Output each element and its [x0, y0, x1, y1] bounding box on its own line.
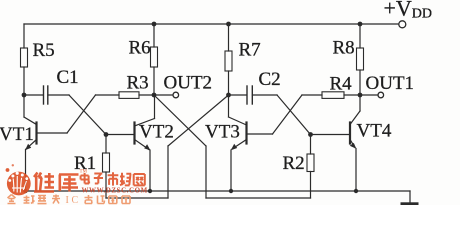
- wire R6 top lead: [153, 24, 155, 47]
- svg-text:R2: R2: [283, 153, 305, 174]
- resistor R5: [21, 48, 28, 67]
- wire VT2 collector vertical: [154, 95, 156, 119]
- wire ground drop: [409, 191, 411, 203]
- svg-text:I: I: [66, 195, 69, 205]
- wire top supply rail: [24, 23, 398, 25]
- svg-text:+VDD: +VDD: [384, 0, 433, 22]
- watermark slogan row: [8, 195, 61, 204]
- svg-text:VT3: VT3: [205, 122, 240, 143]
- resistor R3: [119, 92, 139, 99]
- transistor VT1: [24, 117, 37, 150]
- node VT4 collector dot: [358, 93, 363, 98]
- wire C2 to VT4 base diagonal: [277, 95, 311, 135]
- svg-text:TM: TM: [80, 170, 88, 175]
- wire C1 right lead: [48, 94, 69, 96]
- node junction dot R8 top: [358, 22, 363, 27]
- wire OUT1 lead: [360, 94, 378, 96]
- transistor VT3: [229, 117, 247, 150]
- resistor R1: [103, 153, 110, 172]
- wire VT1 collector vertical: [23, 95, 25, 117]
- wire R5 top lead: [23, 24, 25, 48]
- node VT3 collector dot: [226, 93, 231, 98]
- svg-text:OUT2: OUT2: [164, 73, 213, 94]
- node VT2 collector dot: [152, 93, 157, 98]
- node VT2 base dot: [104, 132, 109, 137]
- wire C1 to VT2 base diagonal: [69, 95, 106, 135]
- wire lower-left rail R1 to cross line: [106, 197, 168, 199]
- wire R2 bottom lead: [310, 172, 312, 199]
- wire OUT2 lead: [154, 94, 173, 96]
- wire VT3 collector vertical: [228, 95, 230, 117]
- watermark: [6, 164, 148, 206]
- wire emitter ground rail: [26, 190, 411, 192]
- wire R8 top lead: [359, 24, 361, 48]
- ground symbol: [401, 202, 419, 205]
- resistor R6: [151, 47, 158, 67]
- resistor R2: [307, 154, 314, 172]
- svg-text:R6: R6: [129, 38, 151, 59]
- svg-text:R4: R4: [330, 74, 353, 95]
- node VT3 emitter dot: [229, 189, 233, 193]
- wire cross line vertical left: [167, 146, 169, 198]
- svg-text:C: C: [72, 195, 79, 205]
- wire R6 bottom lead: [153, 67, 155, 95]
- node VT1 emitter dot: [23, 189, 27, 193]
- wire R3 to VT1 base diagonal: [67, 95, 96, 133]
- svg-text:WWW.DZSC.COM: WWW.DZSC.COM: [82, 187, 148, 195]
- wire VT4 emitter vertical: [355, 149, 357, 192]
- wire VT4 collector vertical: [359, 95, 361, 111]
- svg-text:OUT1: OUT1: [366, 73, 415, 94]
- wire VT3 base to R4 diagonal: [273, 95, 303, 134]
- svg-text:C2: C2: [259, 69, 281, 90]
- wire C2 left lead: [229, 94, 247, 96]
- node VT4 base dot: [308, 132, 313, 137]
- wire R1 top lead: [105, 135, 107, 154]
- wire VT1 base lead: [37, 132, 67, 134]
- terminal OUT1 open circle: [378, 92, 384, 98]
- svg-text:R7: R7: [239, 40, 261, 61]
- wire R2 top lead: [310, 135, 312, 155]
- transistor VT2: [135, 119, 155, 151]
- capacitor C1: [44, 86, 48, 104]
- node junction dot R7 top: [226, 22, 231, 27]
- watermark logo disc: [6, 164, 31, 195]
- watermark char wei: [34, 173, 54, 192]
- svg-text:R5: R5: [33, 40, 55, 61]
- wire cross line vertical right: [205, 146, 207, 198]
- wire R8 bottom lead: [359, 70, 361, 95]
- watermark char ku: [59, 175, 79, 192]
- wire VT4 base lead: [311, 134, 350, 136]
- wire VT2 emitter vertical: [149, 150, 151, 191]
- transistor VT4: [350, 111, 360, 149]
- wire R3 right lead: [139, 94, 154, 96]
- wire C1 left lead: [24, 94, 43, 96]
- node VT4 emitter dot: [354, 189, 358, 193]
- resistor R4: [322, 92, 344, 99]
- watermark chars dian zi shi chang wang: [81, 172, 145, 185]
- svg-text:VT2: VT2: [139, 122, 174, 143]
- wire R4 left lead: [302, 94, 322, 96]
- wire lower-right rail to R2: [206, 197, 311, 199]
- node junction dot R6 top: [152, 22, 157, 27]
- svg-text:C1: C1: [57, 67, 79, 88]
- svg-text:R8: R8: [333, 38, 355, 59]
- wire VT1 emitter vertical: [25, 150, 27, 192]
- terminal +VDD open circle: [399, 21, 406, 28]
- wire C2 right lead: [253, 94, 278, 96]
- wire cross line VT2 collector to R2 diagonal: [154, 95, 206, 146]
- wire VT3 base lead: [247, 133, 273, 135]
- wire cross line VT3 collector to R1 diagonal: [168, 95, 229, 146]
- svg-text:VT4: VT4: [357, 121, 392, 142]
- wire VT2 base lead: [106, 134, 134, 136]
- wire R5 bottom lead: [23, 67, 25, 95]
- wire R7 top lead: [228, 24, 230, 51]
- wire R7 bottom lead: [228, 71, 230, 95]
- node VT1 collector dot: [22, 93, 27, 98]
- node VT2 emitter dot: [148, 189, 152, 193]
- svg-text:VT1: VT1: [0, 124, 34, 145]
- svg-text:R3: R3: [127, 73, 149, 94]
- wire VT3 emitter vertical: [230, 150, 232, 191]
- resistor R8: [357, 48, 364, 70]
- wire R3 left lead: [96, 94, 120, 96]
- resistor R7: [225, 51, 232, 71]
- wire R4 right lead: [344, 94, 360, 96]
- capacitor C2: [247, 86, 252, 104]
- terminal OUT2 open circle: [173, 92, 179, 98]
- wire R1 bottom lead: [105, 172, 107, 198]
